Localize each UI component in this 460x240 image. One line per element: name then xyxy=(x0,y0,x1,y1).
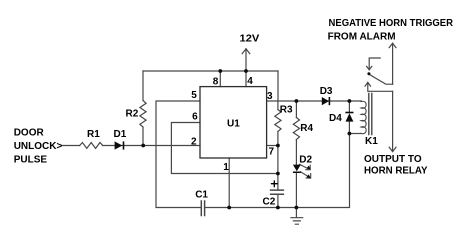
svg-text:R4: R4 xyxy=(300,123,313,134)
resistor R1 xyxy=(80,143,103,149)
node pin6 C2 xyxy=(276,172,280,176)
wire R2 branch vertical upper lead xyxy=(142,71,144,101)
svg-text:U1: U1 xyxy=(227,119,240,130)
svg-text:FROM ALARM: FROM ALARM xyxy=(328,32,396,43)
relay contact arm xyxy=(370,75,393,85)
relay contact up arrow and lower terminal xyxy=(368,83,393,92)
svg-text:DOOR: DOOR xyxy=(14,127,45,138)
wire negative horn trigger from alarm xyxy=(392,43,394,84)
wire R3 lower lead to pin7 node xyxy=(277,132,279,146)
wire pin 3 line to relay coil xyxy=(267,100,362,102)
svg-text:D1: D1 xyxy=(114,129,127,140)
svg-text:UNLOCK>: UNLOCK> xyxy=(14,141,63,152)
svg-text:7: 7 xyxy=(269,147,275,158)
svg-text:OUTPUT TO: OUTPUT TO xyxy=(364,154,422,165)
resistor R4 xyxy=(293,118,299,140)
wire pin 6 down and right to C2 node xyxy=(171,123,278,174)
wire R1 to pin 2 xyxy=(103,145,200,147)
relay contact hook arrow xyxy=(369,58,380,70)
IC op-amp/timer U1 box xyxy=(200,87,267,158)
node 12V rail xyxy=(244,69,248,73)
node pin1 bottom xyxy=(227,206,231,210)
wire R2 lower lead xyxy=(142,127,144,146)
wire top 12V rail xyxy=(143,70,278,72)
node R4 top xyxy=(295,99,299,103)
node D3 D4 coil top xyxy=(348,99,352,103)
wire D2 to bottom xyxy=(295,172,297,208)
wire pin 5 to bottom-left corner xyxy=(156,101,201,208)
svg-text:D4: D4 xyxy=(329,113,342,124)
diode D3 xyxy=(322,97,329,105)
resistor R3 xyxy=(275,110,281,132)
wire rail right corner down to pin3 line xyxy=(277,71,279,101)
svg-text:4: 4 xyxy=(247,76,253,87)
svg-text:HORN RELAY: HORN RELAY xyxy=(364,165,428,176)
svg-text:K1: K1 xyxy=(365,136,378,147)
wire pin7 node down to C2 xyxy=(277,146,279,191)
wire pin 8 xyxy=(219,71,221,87)
svg-text:R1: R1 xyxy=(87,129,100,140)
svg-text:5: 5 xyxy=(191,90,197,101)
svg-text:PULSE: PULSE xyxy=(14,154,48,165)
wire pin 1 xyxy=(228,158,230,208)
node D1 R2 pin2 xyxy=(141,144,145,148)
svg-text:D3: D3 xyxy=(320,86,333,97)
node D2 ground bottom xyxy=(295,206,299,210)
wire R4 upper lead xyxy=(295,101,297,118)
node C2 bottom xyxy=(276,206,280,210)
wire R4 to D2 xyxy=(295,140,297,165)
node D4 coil bottom xyxy=(348,132,352,136)
svg-text:3: 3 xyxy=(267,91,273,102)
wire pin 7 xyxy=(267,145,278,147)
wire R3 upper lead xyxy=(277,101,279,110)
node relay contact pivot xyxy=(367,72,370,75)
svg-text:2: 2 xyxy=(191,137,197,148)
capacitor C2 plates xyxy=(271,190,284,194)
LED D2 emission arrows xyxy=(299,164,310,169)
svg-text:6: 6 xyxy=(192,112,198,123)
C2 plus sign xyxy=(272,181,278,187)
wire output to horn relay xyxy=(392,91,394,151)
svg-text:R2: R2 xyxy=(126,109,139,120)
svg-text:NEGATIVE HORN TRIGGER: NEGATIVE HORN TRIGGER xyxy=(329,18,454,29)
ground xyxy=(291,208,303,225)
diode D4 xyxy=(345,112,353,114)
wire pin 4 xyxy=(245,71,247,87)
capacitor C1 plates xyxy=(201,201,204,216)
node pin7 R3 xyxy=(276,144,280,148)
svg-text:D2: D2 xyxy=(299,155,312,166)
LED D2 xyxy=(293,165,301,172)
svg-text:1: 1 xyxy=(223,162,229,173)
node pin8 rail xyxy=(218,69,222,73)
wire door unlock pulse input to R1 xyxy=(62,145,80,147)
resistor R2 xyxy=(140,101,146,128)
wire bottom right segment up to relay coil bottom xyxy=(205,134,350,208)
wire relay coil top xyxy=(349,133,361,135)
relay core lines xyxy=(369,94,372,135)
svg-text:C2: C2 xyxy=(263,197,276,208)
svg-text:12V: 12V xyxy=(240,34,260,45)
svg-text:8: 8 xyxy=(213,77,219,88)
power 12V arrow xyxy=(245,49,247,71)
diode D1 xyxy=(115,141,123,149)
diode D4 vertical leads xyxy=(348,101,350,134)
wire C2 to bottom xyxy=(277,194,279,207)
inductor relay coil K1 xyxy=(361,101,366,133)
svg-text:C1: C1 xyxy=(195,190,208,201)
svg-text:R3: R3 xyxy=(280,105,293,116)
